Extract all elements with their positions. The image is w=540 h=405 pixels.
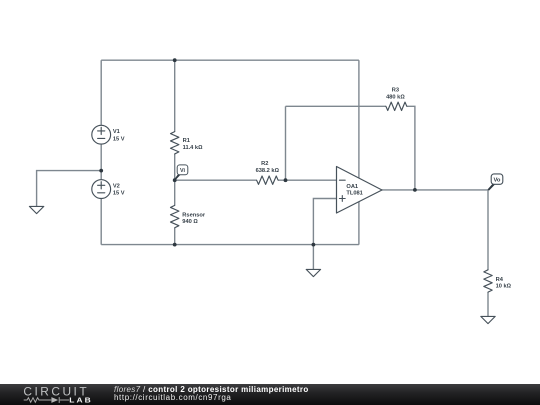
wire Rsensor bottom bbox=[174, 228, 176, 245]
svg-text:OA1: OA1 bbox=[346, 184, 358, 190]
svg-text:480 kΩ: 480 kΩ bbox=[386, 94, 405, 100]
op-amp input polarity marks bbox=[339, 180, 345, 201]
svg-text:TL081: TL081 bbox=[346, 191, 362, 197]
node junction inverting input bbox=[284, 178, 288, 182]
wire R1 branch top bbox=[174, 60, 176, 131]
voltage source V2 bbox=[92, 180, 111, 199]
node junction V1-V2 midpoint bbox=[99, 169, 103, 173]
svg-text:R3: R3 bbox=[392, 88, 399, 94]
wire feedback top to R3 bbox=[286, 105, 386, 107]
svg-text:Vi: Vi bbox=[180, 168, 185, 174]
node junction non-inverting bottom bbox=[312, 243, 316, 247]
wire non-inverting input bbox=[313, 199, 336, 245]
svg-text:R1: R1 bbox=[183, 138, 190, 144]
ground (left, between V1 and V2) bbox=[29, 206, 43, 213]
voltage source V1 bbox=[92, 125, 111, 144]
footer bar bbox=[0, 384, 540, 405]
svg-text:11.4 kΩ: 11.4 kΩ bbox=[183, 145, 203, 151]
resistor R4 body bbox=[484, 270, 492, 292]
op-amp OA1 bbox=[337, 167, 383, 214]
svg-text:LAB: LAB bbox=[69, 396, 93, 404]
wire feedback up from inverting node bbox=[285, 106, 287, 180]
node junction Vi bbox=[173, 178, 177, 182]
wire R3 to output branch bbox=[407, 106, 415, 190]
wire left vertical through V1 V2 bbox=[100, 60, 102, 244]
node junction Rsensor bottom bbox=[173, 243, 177, 247]
ground (below non-inverting input) bbox=[306, 269, 320, 276]
svg-text:Rsensor: Rsensor bbox=[182, 213, 206, 219]
wire R1 to node Vi bbox=[174, 154, 176, 205]
svg-text:Vo: Vo bbox=[494, 177, 501, 183]
svg-text:R4: R4 bbox=[496, 277, 504, 283]
resistor R2 body bbox=[257, 176, 278, 184]
node flag Vi bbox=[174, 165, 188, 181]
wire output down to R4 bbox=[487, 190, 489, 270]
resistor R3 body bbox=[386, 102, 407, 110]
wire bottom horizontal bbox=[101, 244, 359, 246]
node junction output bbox=[413, 188, 417, 192]
svg-text:V1: V1 bbox=[113, 129, 120, 135]
resistor Rsensor body bbox=[171, 205, 179, 227]
wire right vertical behind op-amp bbox=[358, 60, 360, 244]
wire op-amp output bbox=[382, 189, 488, 191]
wire R2 to op-amp inverting input bbox=[278, 179, 336, 181]
wire ground branch from V1 V2 midpoint bbox=[37, 171, 102, 207]
svg-text:R2: R2 bbox=[261, 161, 268, 167]
ground (below R4) bbox=[481, 316, 495, 323]
wire R4 to ground bbox=[487, 292, 489, 316]
svg-text:10 kΩ: 10 kΩ bbox=[496, 284, 512, 290]
svg-text:15 V: 15 V bbox=[113, 136, 125, 142]
node junction top R1 bbox=[173, 58, 177, 62]
svg-text:15 V: 15 V bbox=[113, 191, 125, 197]
wire node Vi to R2 bbox=[175, 179, 257, 181]
wire non-inverting node to ground bbox=[312, 245, 314, 270]
svg-text:638.2 kΩ: 638.2 kΩ bbox=[256, 168, 280, 174]
svg-text:V2: V2 bbox=[113, 183, 120, 189]
node flag Vo bbox=[488, 174, 503, 191]
wire top horizontal bbox=[101, 59, 359, 61]
svg-text:940 Ω: 940 Ω bbox=[182, 219, 198, 225]
resistor R1 body bbox=[171, 132, 179, 154]
